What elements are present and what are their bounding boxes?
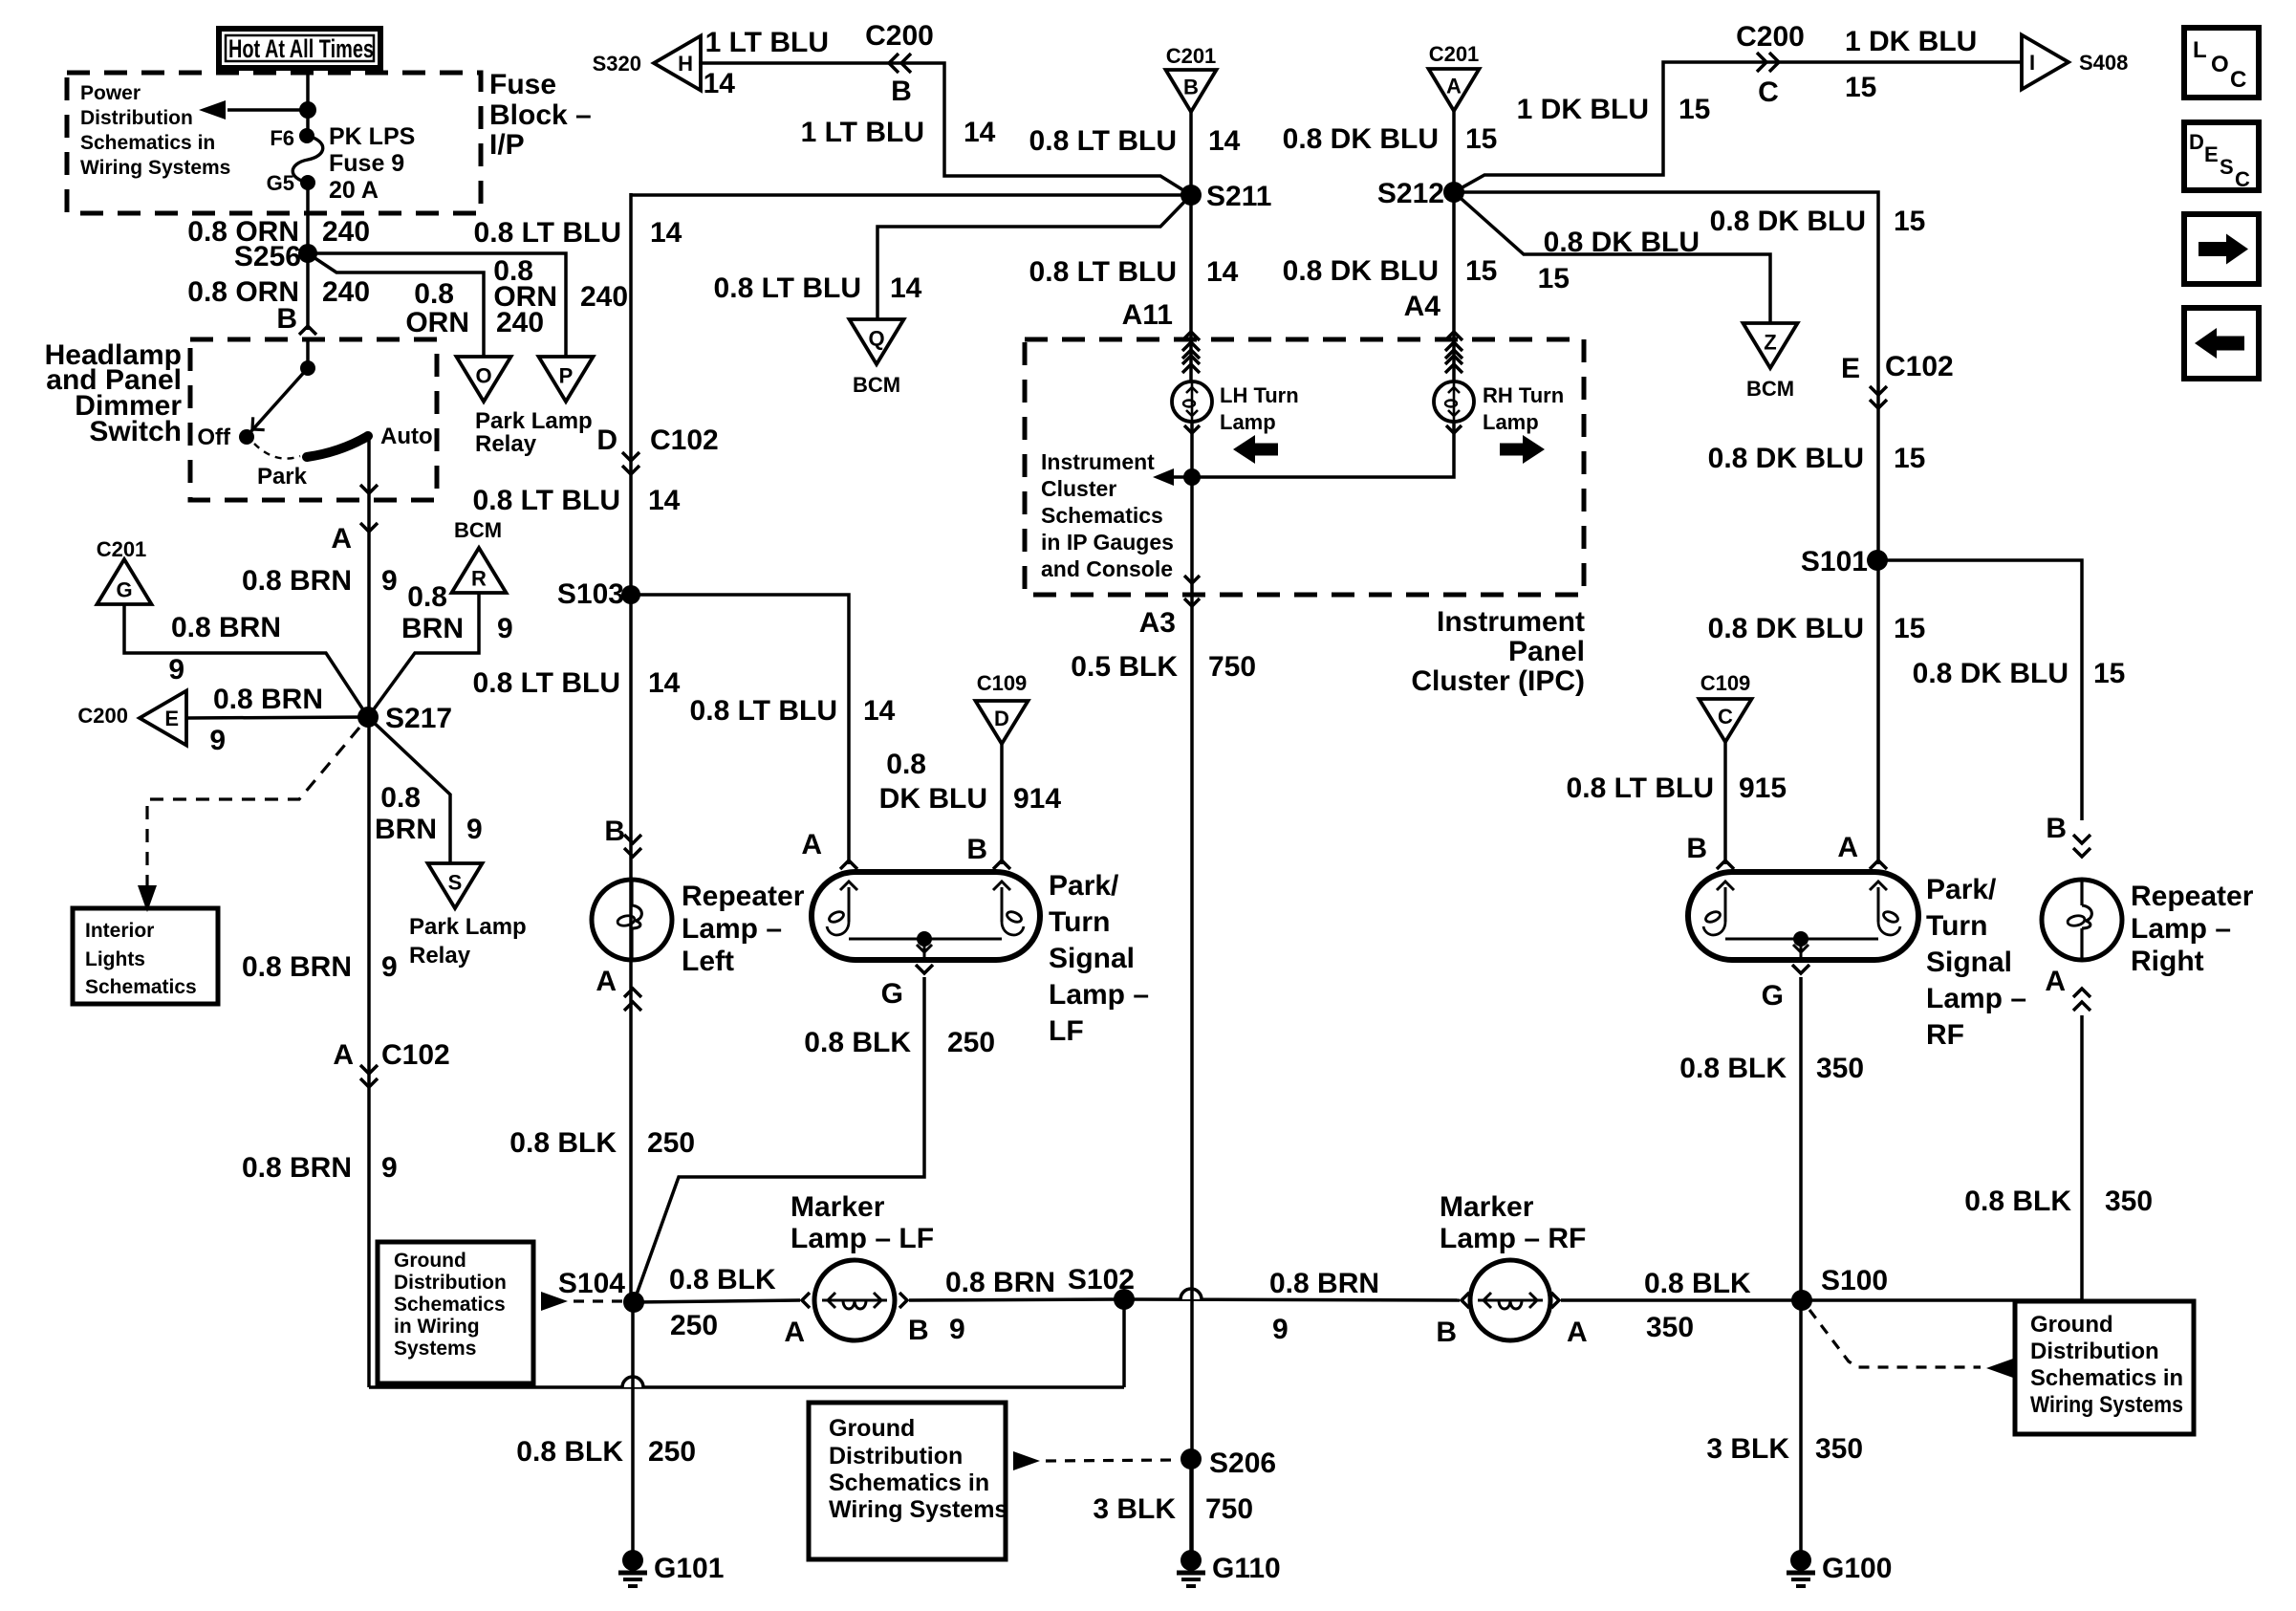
svg-text:Repeater: Repeater (682, 881, 805, 912)
legend right arrow box (2184, 214, 2259, 284)
wire marker RF to S100 (1561, 1298, 1802, 1302)
svg-text:0.8: 0.8 (886, 749, 926, 780)
svg-text:Park/: Park/ (1049, 870, 1119, 902)
svg-text:Panel: Panel (1508, 636, 1585, 667)
svg-text:PK LPS: PK LPS (329, 123, 415, 150)
svg-text:O: O (475, 363, 491, 387)
svg-text:0.8 BRN: 0.8 BRN (242, 1152, 352, 1184)
svg-text:0.8 LT BLU: 0.8 LT BLU (1029, 125, 1177, 157)
svg-text:Lamp –: Lamp – (1049, 979, 1149, 1011)
svg-text:Power: Power (80, 82, 141, 104)
svg-text:9: 9 (497, 613, 513, 644)
svg-text:S103: S103 (557, 578, 624, 610)
svg-text:14: 14 (964, 117, 996, 148)
connector O park lamp relay (457, 357, 511, 402)
connector P park lamp relay (539, 357, 594, 402)
svg-text:0.8 BLK: 0.8 BLK (804, 1027, 911, 1058)
svg-text:14: 14 (1206, 256, 1239, 288)
switch arm to Off (250, 368, 308, 432)
svg-text:1 DK BLU: 1 DK BLU (1517, 94, 1649, 125)
svg-text:A: A (333, 1039, 354, 1071)
svg-text:S: S (448, 870, 463, 894)
wire S211 to BCM Q (877, 195, 1191, 319)
svg-text:350: 350 (1646, 1312, 1694, 1343)
svg-text:9: 9 (466, 814, 483, 845)
svg-text:S104: S104 (558, 1268, 625, 1299)
svg-text:Ground: Ground (2030, 1312, 2113, 1338)
svg-text:Distribution: Distribution (80, 107, 193, 129)
svg-text:C: C (2230, 67, 2246, 93)
svg-text:240: 240 (322, 276, 370, 308)
svg-text:0.8 BRN: 0.8 BRN (1269, 1268, 1379, 1299)
svg-text:G: G (881, 978, 903, 1010)
svg-text:in IP Gauges: in IP Gauges (1041, 530, 1174, 555)
off contact (239, 429, 254, 445)
turn left black arrow (1233, 435, 1278, 464)
svg-text:9: 9 (381, 1152, 398, 1184)
svg-text:C201: C201 (1429, 42, 1480, 66)
svg-text:Block –: Block – (489, 99, 592, 131)
svg-text:Interior: Interior (85, 920, 154, 942)
svg-text:20 A: 20 A (329, 177, 379, 204)
splice S217 (357, 707, 379, 728)
svg-text:0.8 BRN: 0.8 BRN (945, 1267, 1055, 1298)
svg-text:DK BLU: DK BLU (879, 783, 987, 815)
svg-text:Auto: Auto (380, 424, 433, 449)
svg-text:A4: A4 (1404, 291, 1441, 322)
dashed leader S217 to interior lights (147, 728, 359, 887)
svg-text:0.8 LT BLU: 0.8 LT BLU (690, 695, 837, 727)
svg-text:0.8 DK BLU: 0.8 DK BLU (1710, 206, 1866, 237)
svg-text:915: 915 (1739, 773, 1787, 804)
svg-text:G: G (1762, 980, 1784, 1012)
svg-text:Relay: Relay (409, 943, 471, 969)
wire E to S217 (186, 717, 368, 718)
svg-text:0.8 BLK: 0.8 BLK (509, 1127, 617, 1159)
svg-text:Marker: Marker (1440, 1191, 1534, 1223)
Interior Lights Schematics box (73, 908, 218, 1004)
svg-text:G110: G110 (1212, 1553, 1281, 1584)
svg-text:0.8 BLK: 0.8 BLK (1679, 1053, 1787, 1084)
splice S211 (1180, 185, 1202, 206)
repeater lamp left (592, 880, 672, 960)
svg-text:C109: C109 (977, 671, 1028, 695)
svg-text:BRN: BRN (401, 613, 464, 644)
svg-text:240: 240 (580, 281, 628, 313)
wire S211 left to D C102 corner (631, 193, 1191, 197)
marker lamp LF (802, 1293, 810, 1308)
splice S104 (623, 1292, 644, 1313)
svg-text:250: 250 (670, 1310, 718, 1341)
wire G to S217 (124, 604, 368, 717)
svg-text:15: 15 (1894, 613, 1925, 644)
wire S256 to park lamp relay P (308, 253, 566, 357)
svg-text:750: 750 (1208, 651, 1256, 683)
wire S104 to marker lamp LF (634, 1300, 800, 1302)
svg-text:3 BLK: 3 BLK (1706, 1433, 1789, 1465)
svg-text:15: 15 (1894, 206, 1925, 237)
svg-text:9: 9 (381, 565, 398, 597)
wire marker LF to S102 (909, 1299, 1124, 1300)
svg-text:B: B (1183, 76, 1199, 99)
svg-text:B: B (966, 834, 987, 865)
junction dot lamp return (1183, 468, 1201, 486)
svg-text:P: P (559, 363, 574, 387)
wire E C102 to S101 (1876, 386, 1880, 864)
svg-text:14: 14 (650, 217, 682, 249)
svg-text:Off: Off (197, 425, 231, 450)
svg-text:914: 914 (1013, 783, 1061, 815)
svg-text:Park Lamp: Park Lamp (409, 914, 527, 940)
svg-text:B: B (891, 76, 912, 107)
svg-text:0.8 BRN: 0.8 BRN (242, 565, 352, 597)
ground G110 (1189, 1469, 1193, 1552)
svg-text:S217: S217 (385, 703, 452, 734)
wire S217 to park lamp relay S (368, 717, 450, 863)
svg-text:Switch: Switch (89, 416, 182, 447)
svg-text:14: 14 (863, 695, 896, 727)
svg-text:Repeater: Repeater (2131, 881, 2254, 912)
wire S211 left branch down D C102 (629, 193, 633, 1302)
svg-text:Wiring Systems: Wiring Systems (2030, 1392, 2183, 1418)
wire C201 B to S211 (1189, 112, 1193, 195)
svg-text:0.8 LT BLU: 0.8 LT BLU (1029, 256, 1177, 288)
svg-text:S100: S100 (1821, 1265, 1888, 1296)
wire G park/turn RF to S100 (1792, 965, 1809, 973)
park dashed arc (254, 444, 300, 459)
svg-text:B: B (604, 816, 625, 847)
svg-text:LF: LF (1049, 1015, 1084, 1047)
svg-text:Park/: Park/ (1926, 874, 1997, 905)
svg-text:Turn: Turn (1926, 910, 1987, 942)
svg-text:C200: C200 (1736, 21, 1805, 53)
svg-text:G: G (116, 577, 132, 601)
svg-text:Park Lamp: Park Lamp (475, 408, 593, 434)
svg-text:240: 240 (322, 216, 370, 248)
svg-text:0.8 DK BLU: 0.8 DK BLU (1708, 443, 1864, 474)
svg-text:Marker: Marker (791, 1191, 885, 1223)
svg-text:250: 250 (648, 1436, 696, 1468)
svg-text:LH Turn: LH Turn (1220, 383, 1299, 407)
svg-text:B: B (1436, 1317, 1457, 1348)
splice S100 (1791, 1290, 1812, 1311)
svg-text:Park: Park (257, 464, 308, 490)
svg-text:S206: S206 (1209, 1448, 1276, 1479)
svg-text:1 DK BLU: 1 DK BLU (1845, 26, 1977, 57)
svg-text:Instrument: Instrument (1437, 606, 1585, 638)
svg-text:I/P: I/P (489, 129, 525, 161)
svg-text:Right: Right (2131, 946, 2204, 977)
svg-text:B: B (276, 303, 297, 335)
RH turn lamp (1452, 339, 1456, 381)
svg-text:0.8 DK BLU: 0.8 DK BLU (1283, 255, 1439, 287)
splice S212 (1443, 182, 1464, 203)
svg-text:Schematics: Schematics (85, 976, 197, 998)
branch arrow to power distribution (227, 108, 308, 112)
svg-text:C200: C200 (865, 20, 934, 52)
svg-text:0.8: 0.8 (380, 782, 421, 814)
svg-text:14: 14 (704, 68, 736, 99)
dashed box headlamp dimmer switch (190, 339, 437, 500)
svg-text:O: O (2211, 52, 2229, 77)
connector S park lamp relay (428, 863, 483, 908)
legend LOC box (2184, 28, 2259, 98)
svg-text:0.8 BLK: 0.8 BLK (1644, 1268, 1751, 1299)
svg-text:Distribution: Distribution (829, 1443, 963, 1469)
dashed leader S100 to ground distribution box (1809, 1310, 1981, 1367)
svg-text:BCM: BCM (853, 373, 900, 397)
wire S103 branch to park/turn LF A (631, 595, 849, 864)
svg-text:R: R (471, 566, 487, 590)
svg-text:L: L (2193, 37, 2207, 63)
svg-text:and Console: and Console (1041, 556, 1173, 581)
svg-text:9: 9 (168, 654, 184, 686)
fuse F6-G5 PK LPS Fuse 9 20A (299, 128, 314, 143)
connector Z BCM (1744, 323, 1798, 368)
wire S256 to park lamp relay O (308, 253, 484, 357)
svg-text:BRN: BRN (375, 814, 437, 845)
svg-text:BCM: BCM (1746, 377, 1794, 401)
svg-text:Signal: Signal (1049, 943, 1135, 974)
svg-text:0.8 LT BLU: 0.8 LT BLU (714, 272, 861, 304)
ground G100 (1799, 1300, 1803, 1552)
svg-text:15: 15 (1538, 263, 1570, 294)
svg-text:E: E (2204, 142, 2219, 166)
svg-text:15: 15 (1845, 72, 1876, 103)
svg-text:Lights: Lights (85, 948, 145, 970)
wire S102 to marker RF (1124, 1299, 1460, 1300)
svg-text:Wiring Systems: Wiring Systems (829, 1496, 1007, 1523)
wire LH lamp to junction (1190, 422, 1194, 477)
svg-text:RF: RF (1926, 1019, 1964, 1051)
svg-text:1 LT BLU: 1 LT BLU (801, 117, 924, 148)
svg-text:350: 350 (1815, 1433, 1863, 1465)
svg-text:Cluster (IPC): Cluster (IPC) (1411, 665, 1585, 697)
svg-text:E: E (1841, 353, 1860, 384)
svg-text:0.8 DK BLU: 0.8 DK BLU (1283, 123, 1439, 155)
svg-text:RH Turn: RH Turn (1483, 383, 1564, 407)
svg-text:B: B (1686, 833, 1707, 864)
svg-text:C: C (2235, 167, 2250, 191)
wire return bottom corner (369, 1385, 1124, 1389)
connector S408 I (2022, 35, 2069, 90)
svg-text:Systems: Systems (394, 1338, 476, 1360)
svg-text:9: 9 (381, 951, 398, 983)
svg-text:14: 14 (1208, 125, 1241, 157)
svg-text:Relay: Relay (475, 431, 537, 457)
svg-text:A: A (2045, 966, 2066, 997)
svg-text:9: 9 (949, 1314, 965, 1345)
svg-text:C102: C102 (381, 1039, 450, 1071)
svg-text:Lamp: Lamp (1483, 410, 1539, 434)
svg-text:15: 15 (2093, 658, 2125, 689)
Hot At All Times box (219, 29, 380, 68)
svg-text:G101: G101 (654, 1553, 724, 1584)
connector S320 H (654, 36, 701, 91)
svg-text:Instrument: Instrument (1041, 449, 1155, 474)
svg-text:D: D (2189, 130, 2204, 154)
svg-text:250: 250 (947, 1027, 995, 1058)
svg-text:H: H (678, 52, 693, 76)
svg-text:750: 750 (1205, 1493, 1253, 1525)
svg-text:S212: S212 (1377, 178, 1444, 209)
svg-text:A: A (784, 1317, 805, 1348)
svg-text:240: 240 (496, 307, 544, 338)
svg-text:15: 15 (1465, 123, 1497, 155)
wire S212 to C200 C / S408 I (1454, 62, 2021, 192)
wire hot feed (306, 68, 310, 136)
svg-text:14: 14 (648, 667, 681, 699)
svg-text:A: A (801, 829, 822, 860)
svg-text:Wiring Systems: Wiring Systems (80, 157, 230, 179)
svg-text:Q: Q (868, 326, 884, 350)
splice S206 (1180, 1448, 1202, 1469)
svg-text:A3: A3 (1139, 607, 1176, 639)
svg-text:0.8 LT BLU: 0.8 LT BLU (473, 485, 620, 516)
wire C201 A to S212 (1452, 111, 1456, 192)
wire S211 down to IPC A11 (1189, 195, 1193, 339)
svg-text:Ground: Ground (829, 1415, 915, 1442)
svg-text:Hot At All Times: Hot At All Times (228, 34, 374, 63)
svg-text:0.8 DK BLU: 0.8 DK BLU (1544, 227, 1700, 258)
svg-text:C200: C200 (77, 704, 128, 728)
wire fuse to S256 (306, 183, 310, 330)
svg-text:A: A (596, 966, 617, 997)
svg-text:Schematics in: Schematics in (2030, 1365, 2183, 1391)
svg-text:9: 9 (209, 725, 226, 756)
svg-text:G100: G100 (1822, 1553, 1892, 1584)
svg-text:350: 350 (2105, 1186, 2153, 1217)
svg-text:15: 15 (1894, 443, 1925, 474)
splice S102 (1114, 1289, 1135, 1310)
LH turn lamp (1189, 339, 1193, 381)
legend DESC box (2184, 122, 2259, 190)
svg-text:Z: Z (1764, 330, 1776, 354)
svg-text:1 LT BLU: 1 LT BLU (705, 27, 829, 58)
svg-text:C102: C102 (650, 425, 719, 456)
svg-text:Lamp –: Lamp – (2131, 913, 2231, 945)
wire C109 D to park/turn LF B (1000, 744, 1004, 864)
connector Q BCM (850, 319, 904, 364)
svg-text:S101: S101 (1801, 546, 1868, 577)
svg-text:0.8 BRN: 0.8 BRN (213, 684, 323, 715)
switch common node (306, 339, 310, 368)
svg-text:D: D (994, 707, 1009, 730)
wire C109 C to park/turn RF B (1723, 742, 1727, 864)
svg-text:Schematics in: Schematics in (80, 132, 215, 154)
svg-text:Fuse 9: Fuse 9 (329, 150, 404, 177)
wire G park/turn LF to S104 (916, 965, 933, 973)
svg-text:A11: A11 (1122, 299, 1173, 331)
svg-text:0.8 LT BLU: 0.8 LT BLU (474, 217, 621, 249)
svg-text:F6: F6 (270, 126, 294, 150)
svg-text:C201: C201 (1166, 44, 1217, 68)
svg-text:0.8 DK BLU: 0.8 DK BLU (1708, 613, 1864, 644)
svg-text:C109: C109 (1700, 671, 1751, 695)
splice S101 (1867, 550, 1888, 571)
svg-text:ORN: ORN (405, 307, 469, 338)
wire auto contact down (367, 436, 371, 500)
svg-text:Fuse: Fuse (489, 69, 556, 100)
svg-text:S102: S102 (1068, 1264, 1135, 1295)
connector C200 inline B (889, 54, 899, 73)
svg-text:Cluster: Cluster (1041, 476, 1116, 501)
svg-text:Lamp – RF: Lamp – RF (1440, 1223, 1586, 1254)
middle ground distribution box (809, 1403, 1006, 1559)
svg-text:0.8 BLK: 0.8 BLK (1964, 1186, 2071, 1217)
wire S212 right to E C102 (1454, 192, 1878, 386)
svg-text:0.8 LT BLU: 0.8 LT BLU (473, 667, 620, 699)
svg-text:D: D (596, 425, 617, 456)
dashed box Power Distribution / Fuse Block (67, 73, 481, 213)
wire RH lamp return (1173, 422, 1454, 477)
svg-text:A: A (1567, 1317, 1588, 1348)
svg-text:Schematics in: Schematics in (829, 1469, 989, 1496)
svg-text:BCM: BCM (454, 518, 502, 542)
svg-text:C102: C102 (1885, 351, 1954, 382)
wire S212 to BCM Z (1454, 192, 1770, 323)
wire S211 to C200 B / S320 H (699, 63, 1191, 195)
svg-text:E: E (164, 707, 179, 730)
svg-text:0.8: 0.8 (407, 581, 447, 613)
auto contact thick wiper (307, 436, 368, 457)
splice S256 (298, 244, 317, 263)
svg-text:3 BLK: 3 BLK (1093, 1493, 1176, 1525)
dashed box instrument panel cluster (1025, 339, 1584, 595)
wire junction down to A3 (1190, 477, 1194, 595)
svg-text:Lamp – LF: Lamp – LF (791, 1223, 934, 1254)
svg-text:0.8 BRN: 0.8 BRN (171, 612, 281, 643)
svg-text:Distribution: Distribution (2030, 1339, 2159, 1364)
svg-text:Turn: Turn (1049, 906, 1110, 938)
svg-text:0.8 BLK: 0.8 BLK (669, 1264, 776, 1295)
svg-text:C201: C201 (97, 537, 147, 561)
svg-text:350: 350 (1816, 1053, 1864, 1084)
svg-text:Schematics: Schematics (394, 1294, 506, 1316)
svg-text:15: 15 (1465, 255, 1497, 287)
svg-text:C: C (1758, 76, 1779, 108)
splice S103 (621, 585, 640, 604)
svg-text:G5: G5 (267, 171, 294, 195)
wire R to S217 (368, 593, 479, 717)
wire S212 down to IPC A4 (1452, 192, 1456, 339)
svg-text:Left: Left (682, 946, 734, 977)
svg-text:A: A (1837, 832, 1858, 863)
svg-text:9: 9 (1272, 1314, 1289, 1345)
legend left arrow box (2184, 308, 2259, 379)
svg-text:B: B (2046, 813, 2067, 844)
svg-text:14: 14 (648, 485, 681, 516)
svg-text:A: A (331, 523, 352, 555)
svg-text:C: C (1718, 705, 1733, 729)
ground G101 (631, 1302, 635, 1552)
svg-text:Schematics: Schematics (1041, 503, 1163, 528)
svg-text:S211: S211 (1206, 181, 1271, 212)
svg-text:Ground: Ground (394, 1250, 466, 1272)
svg-text:0.8 DK BLU: 0.8 DK BLU (1913, 658, 2069, 689)
svg-text:Distribution: Distribution (394, 1272, 507, 1294)
svg-text:0.8 BLK: 0.8 BLK (516, 1436, 623, 1468)
wire S101 branch to repeater right (1877, 560, 2082, 820)
dashed leader ground distribution to S104 (378, 1242, 533, 1383)
svg-text:I: I (2029, 51, 2035, 75)
svg-text:0.8 LT BLU: 0.8 LT BLU (1567, 773, 1714, 804)
svg-text:in Wiring: in Wiring (394, 1316, 480, 1338)
turn right black arrow (1500, 435, 1545, 464)
connector C200 inline C (1757, 53, 1766, 72)
svg-text:Lamp –: Lamp – (682, 913, 782, 945)
svg-text:0.8: 0.8 (414, 278, 454, 310)
